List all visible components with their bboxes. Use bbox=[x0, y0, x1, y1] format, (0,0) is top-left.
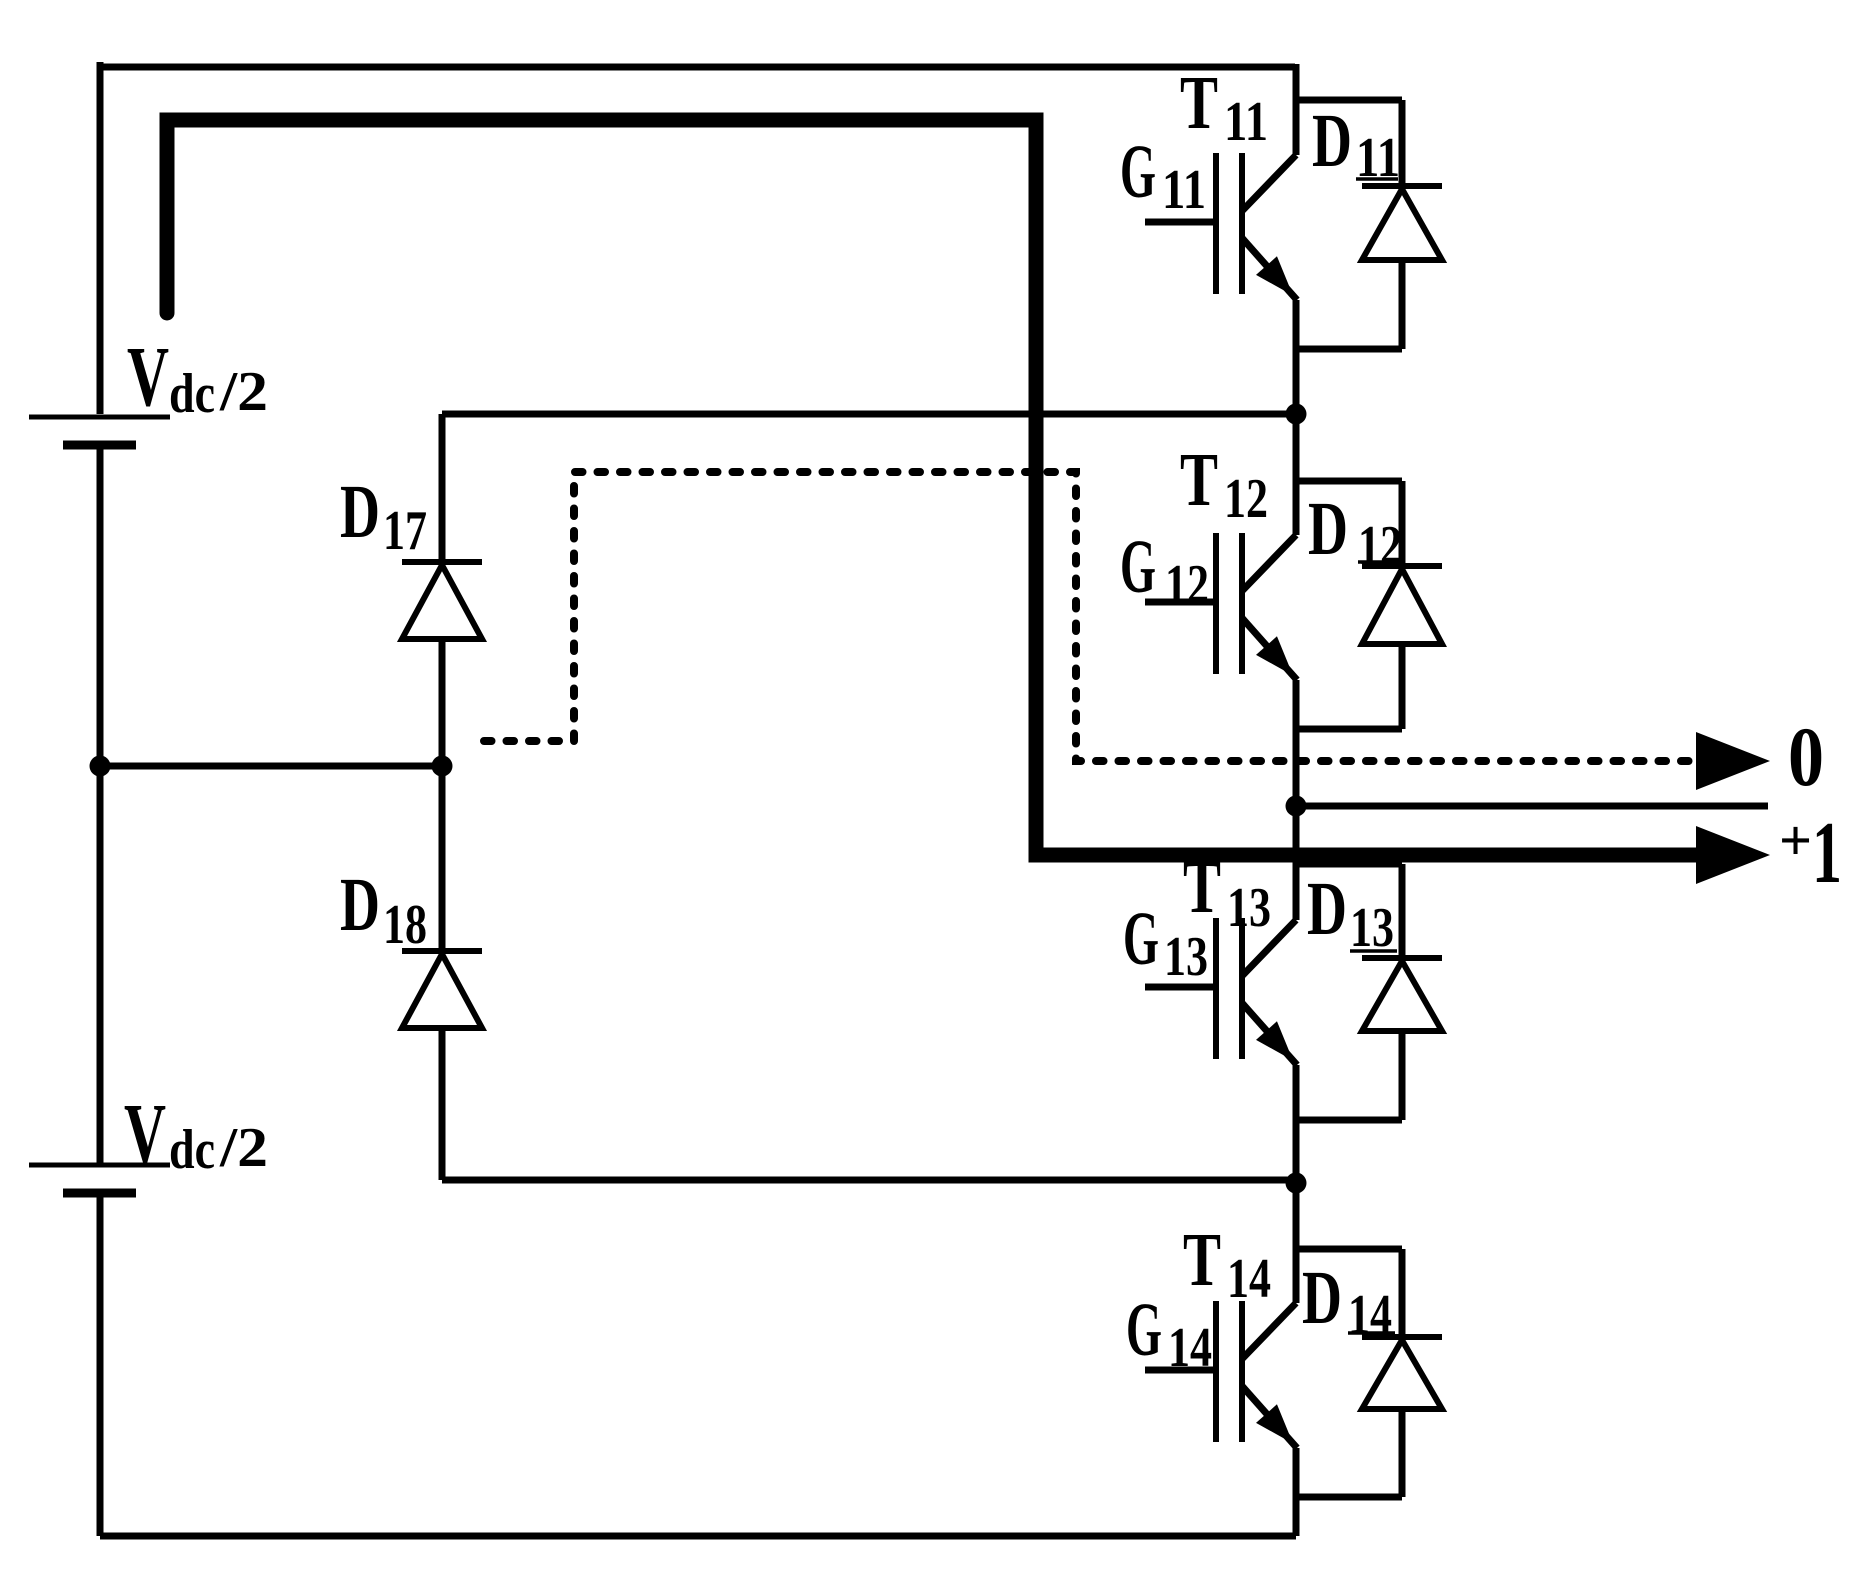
svg-text:17: 17 bbox=[383, 500, 427, 562]
svg-text:D: D bbox=[1312, 99, 1352, 183]
svg-text:11: 11 bbox=[1224, 91, 1268, 153]
svg-text:D: D bbox=[340, 863, 380, 947]
svg-text:14: 14 bbox=[1227, 1248, 1271, 1310]
svg-text:12: 12 bbox=[1224, 468, 1268, 530]
svg-text:D: D bbox=[1308, 487, 1348, 571]
svg-text:12: 12 bbox=[1165, 554, 1209, 616]
svg-text:18: 18 bbox=[383, 894, 427, 956]
svg-text:T: T bbox=[1180, 438, 1218, 522]
svg-text:dc: dc bbox=[169, 1119, 215, 1181]
svg-text:13: 13 bbox=[1164, 926, 1208, 988]
svg-text:D: D bbox=[1302, 1256, 1342, 1340]
svg-text:V: V bbox=[127, 328, 169, 424]
svg-text:/2: /2 bbox=[219, 1117, 268, 1179]
svg-text:/2: /2 bbox=[219, 361, 268, 423]
svg-text:V: V bbox=[124, 1085, 166, 1181]
svg-text:T: T bbox=[1180, 61, 1218, 145]
svg-text:G: G bbox=[1126, 1288, 1162, 1372]
svg-text:D: D bbox=[340, 470, 380, 554]
svg-text:T: T bbox=[1183, 845, 1221, 929]
svg-text:14: 14 bbox=[1168, 1317, 1212, 1379]
svg-text:13: 13 bbox=[1227, 877, 1271, 939]
svg-text:+: + bbox=[1779, 808, 1812, 873]
svg-text:12: 12 bbox=[1358, 515, 1402, 577]
svg-text:D: D bbox=[1307, 867, 1347, 951]
svg-text:14: 14 bbox=[1348, 1284, 1392, 1346]
svg-text:dc: dc bbox=[169, 363, 215, 425]
svg-text:0: 0 bbox=[1788, 710, 1824, 804]
svg-text:G: G bbox=[1123, 897, 1159, 981]
svg-text:G: G bbox=[1120, 130, 1156, 214]
svg-text:1: 1 bbox=[1812, 805, 1842, 902]
svg-text:11: 11 bbox=[1162, 159, 1206, 221]
svg-text:G: G bbox=[1120, 525, 1156, 609]
svg-text:T: T bbox=[1183, 1218, 1221, 1302]
